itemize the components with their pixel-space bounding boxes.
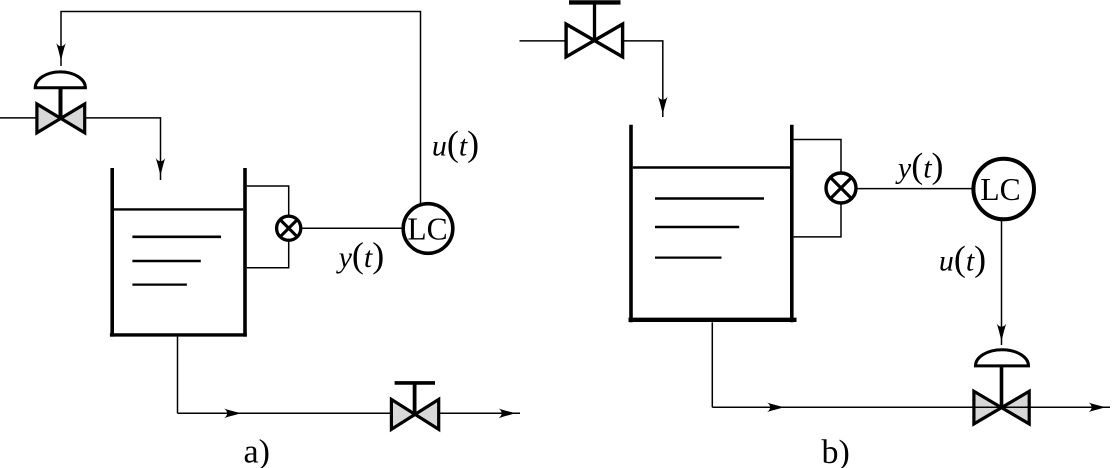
tank B left wall [629, 125, 633, 322]
wire: level tap bracket from tank A to sensor S1 [247, 186, 289, 268]
pipe: valve V3 outlet into tank B [623, 41, 663, 117]
tank B liquid surface line [633, 166, 790, 168]
hand valve V2 stem [413, 384, 417, 414]
wire: measurement signal y(t) from S2 to LC2 [857, 188, 972, 190]
svg-text:y(t): y(t) [895, 146, 944, 186]
valve V4 body (bowtie) [974, 391, 1029, 424]
svg-text:LC: LC [407, 211, 447, 246]
pipe: feed line into valve V1 [0, 117, 36, 119]
arrowhead: tank B outlet end [1089, 403, 1107, 413]
tank A left wall [110, 168, 114, 337]
tank B bottom [629, 318, 797, 322]
tank A level mark 1 [132, 236, 221, 239]
valve V1 actuator dome (figure a control valve) [35, 72, 85, 88]
svg-text:LC: LC [980, 172, 1020, 207]
controller LC2 circle [973, 159, 1034, 220]
svg-text:y(t): y(t) [336, 235, 385, 275]
sensor S1 (level transmitter, figure a) [277, 216, 301, 240]
arrowhead: flow direction on tank B outlet [767, 403, 785, 413]
valve V1 stem [59, 88, 63, 119]
valve V4 actuator dome (figure b control valve) [976, 350, 1029, 366]
svg-text:u(t): u(t) [939, 239, 986, 279]
pipe: tank A outlet down [177, 337, 179, 414]
svg-text:u(t): u(t) [432, 123, 479, 163]
arrowhead: control signal onto valve V1 actuator [56, 43, 66, 61]
pipe: tank B outlet down [711, 322, 713, 407]
tank B level mark 2 [655, 226, 739, 229]
arrowhead: flow direction on tank A outlet [224, 409, 242, 419]
pipe: tank B outlet horizontal [712, 406, 1110, 408]
tank A liquid surface line [114, 208, 244, 210]
tank B level mark 3 [655, 257, 722, 259]
wire: level tap bracket from tank B to sensor S2 [794, 140, 841, 237]
svg-text:b): b) [822, 434, 850, 468]
tank B right wall [790, 125, 794, 322]
hand valve V3 T-handle bar [569, 0, 621, 4]
wire: control signal u(t) from LC2 down to valve V4 [1001, 221, 1003, 345]
tank B level mark 1 [655, 197, 764, 200]
wire: measurement signal y(t) from S1 to LC1 [302, 227, 402, 229]
controller LC1 circle [403, 204, 453, 254]
hand valve V2 T-handle bar [395, 381, 435, 385]
arrowhead: control signal onto valve V4 actuator [997, 324, 1007, 342]
tank A level mark 3 [132, 284, 187, 286]
tank A level mark 2 [132, 260, 200, 263]
pipe: valve V1 outlet into tank A [85, 118, 161, 180]
pipe: tank A outlet horizontal [178, 412, 521, 414]
hand valve V3 body (open bowtie) [566, 24, 623, 57]
tank A right wall [243, 168, 247, 337]
valve V4 stem [1000, 366, 1004, 408]
arrowhead: inflow into tank B [658, 97, 668, 115]
hand valve V2 body (bowtie) [391, 399, 438, 429]
wire: control signal line from LC1 to valve V1 (figure a) [61, 12, 421, 205]
hand valve V3 stem [593, 4, 596, 41]
arrowhead: tank A outlet end [499, 409, 517, 419]
arrowhead: inflow into tank A [156, 158, 166, 176]
svg-text:a): a) [244, 434, 270, 468]
sensor S2 (level transmitter, figure b) [826, 173, 856, 203]
tank A bottom [110, 333, 247, 336]
valve V1 body (bowtie) [37, 104, 85, 133]
pipe: feed line into hand valve V3 (figure b) [520, 40, 567, 42]
